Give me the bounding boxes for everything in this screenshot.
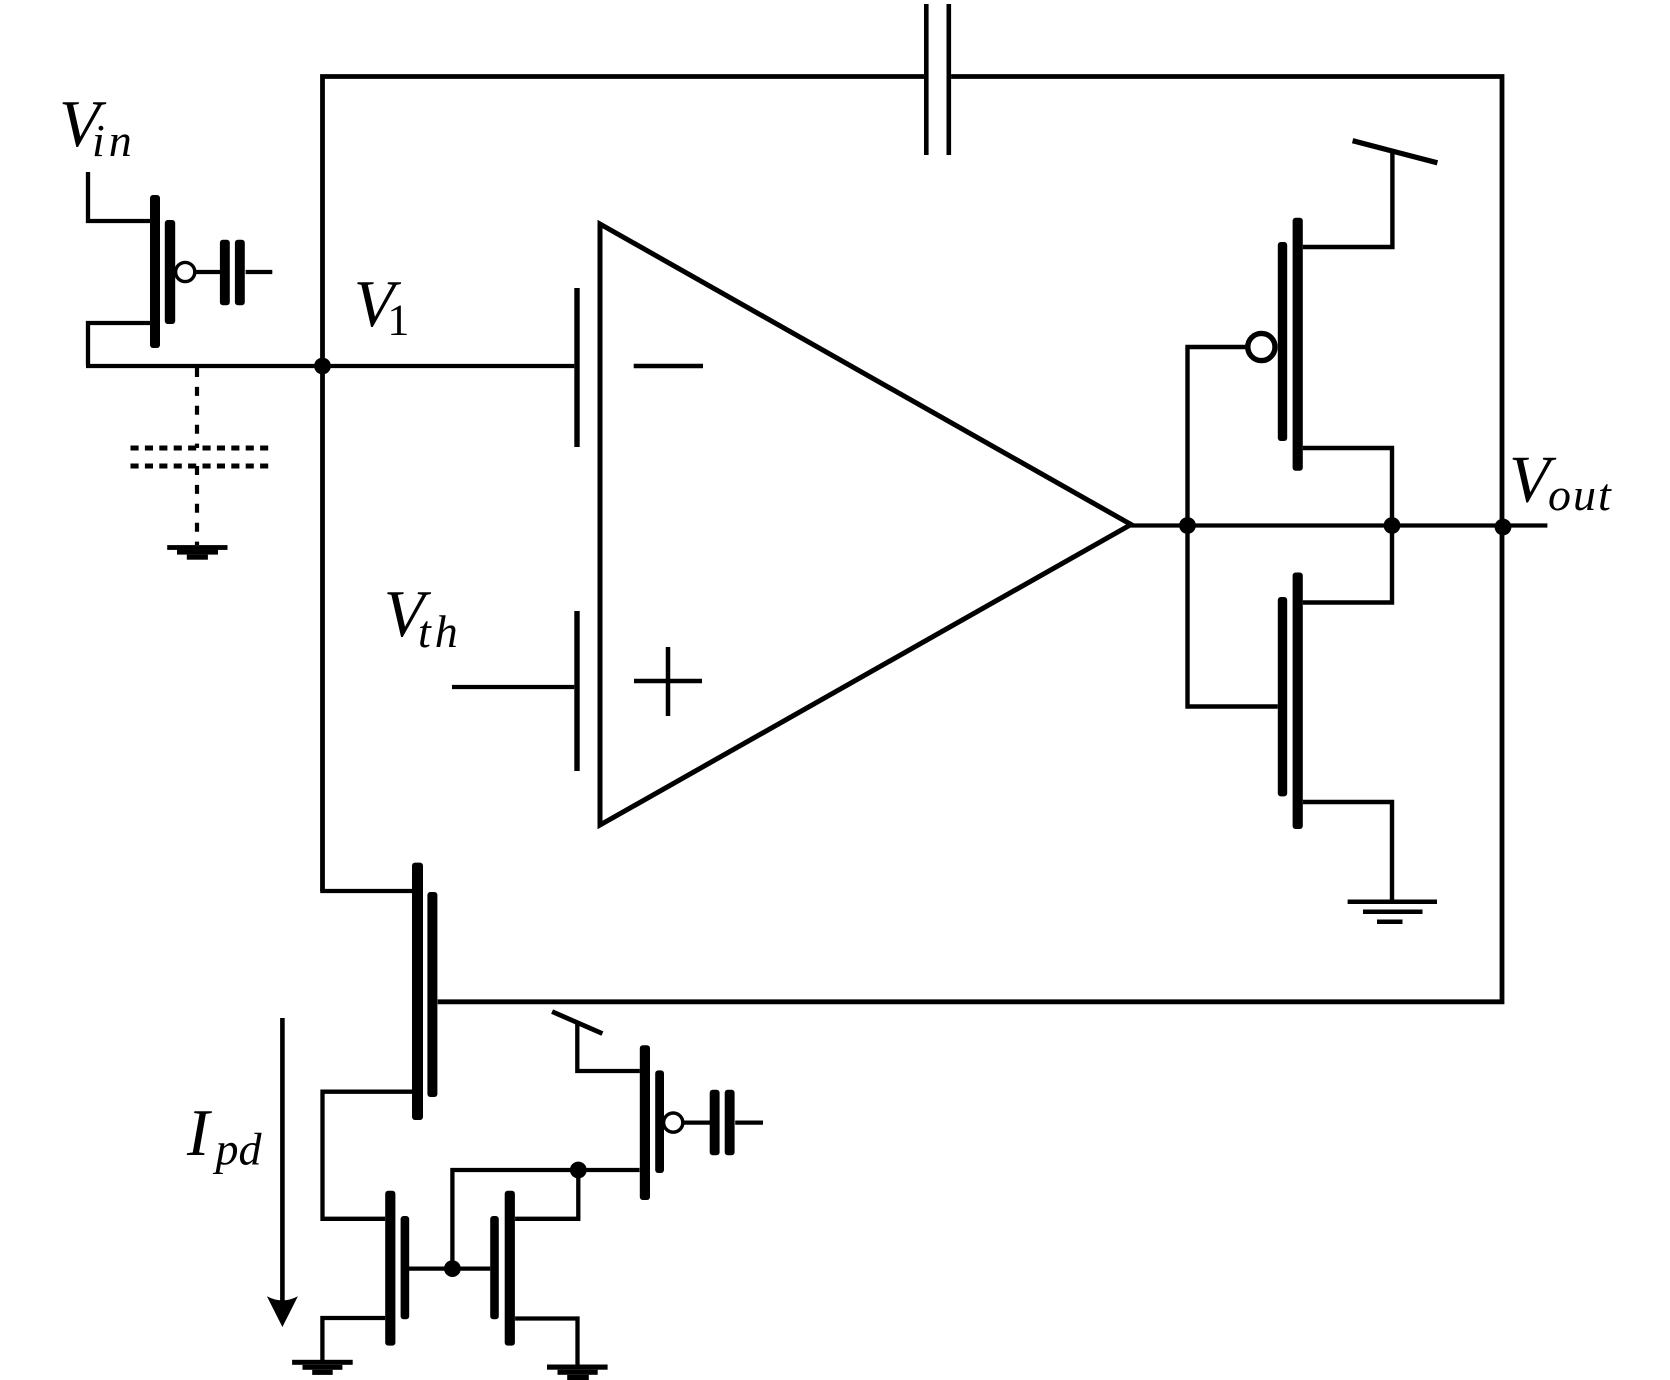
ground (below M2): [292, 1360, 353, 1375]
label Vth: [384, 577, 462, 657]
junction output drains: [1384, 517, 1401, 534]
wire M1 source to M2 drain: [323, 1092, 413, 1219]
wire VDD to Mc2 top terminal: [577, 1023, 640, 1071]
label Vin: [59, 87, 136, 166]
transistor M2 (mirror diode side left): [385, 1191, 409, 1346]
wire Vin lead: [88, 172, 150, 221]
wire op-amp output to Vout: [1131, 523, 1547, 527]
MOS capacitor Mc1 (input device at Vin): [150, 195, 272, 348]
junction output gate feed: [1179, 517, 1196, 534]
ground (output stage): [1348, 902, 1437, 922]
wire MP source to VDD: [1303, 152, 1393, 247]
wire M3 source to ground: [515, 1319, 577, 1367]
wire MN source to ground: [1303, 802, 1392, 900]
ground (below M3): [547, 1365, 608, 1380]
wire Vth to op-amp + input: [452, 685, 574, 689]
svg-text:in: in: [92, 115, 136, 166]
label Vout: [1509, 442, 1613, 520]
current arrow Ipd: [267, 1018, 298, 1327]
wire M2 gate to M3 gate: [409, 1266, 490, 1270]
capacitor Cf (feedback): [924, 4, 951, 155]
wire feedback box left + top-left: [323, 77, 925, 892]
MOS capacitor Mc2 (bias device): [640, 1045, 763, 1200]
transistor MN (output NMOS): [1278, 573, 1303, 830]
wire mirror gate riser: [452, 1170, 639, 1269]
transistor M1 (input NMOS): [412, 863, 437, 1120]
svg-text:1: 1: [387, 296, 409, 345]
ground (below parasitic capacitor): [167, 545, 227, 560]
wire feedback box top-right + right + bottom: [438, 77, 1502, 1002]
label V1: [354, 267, 410, 345]
svg-text:out: out: [1548, 469, 1613, 520]
svg-text:pd: pd: [213, 1124, 263, 1175]
supply VDD (top): [1353, 141, 1438, 163]
wire MP drain / MN drain to output node: [1303, 448, 1392, 603]
junction mirror gates: [444, 1260, 461, 1277]
supply VDD (bottom): [552, 1012, 602, 1034]
wire M2 source to ground: [322, 1318, 385, 1361]
dashed wire capacitor to ground: [195, 466, 199, 545]
wire gate feed to output transistors: [1188, 347, 1278, 707]
wire M3 drain to node: [515, 1170, 578, 1219]
wire node V1: [86, 364, 574, 368]
parasitic capacitor (dashed): [131, 448, 273, 466]
dashed wire to parasitic capacitor: [195, 368, 199, 448]
op-amp U1: [574, 224, 1131, 825]
wire M1 drain: [320, 889, 412, 893]
label Ipd: [186, 1096, 263, 1175]
wire Mc1 bottom terminal to V1 node: [88, 323, 150, 366]
junction M3 drain node: [570, 1162, 587, 1179]
svg-text:th: th: [418, 606, 462, 657]
junction output box edge: [1495, 519, 1512, 536]
junction V1: [314, 358, 331, 375]
transistor MP (output PMOS): [1248, 218, 1303, 471]
svg-text:I: I: [186, 1096, 212, 1170]
transistor M3 (mirror right): [490, 1191, 515, 1346]
